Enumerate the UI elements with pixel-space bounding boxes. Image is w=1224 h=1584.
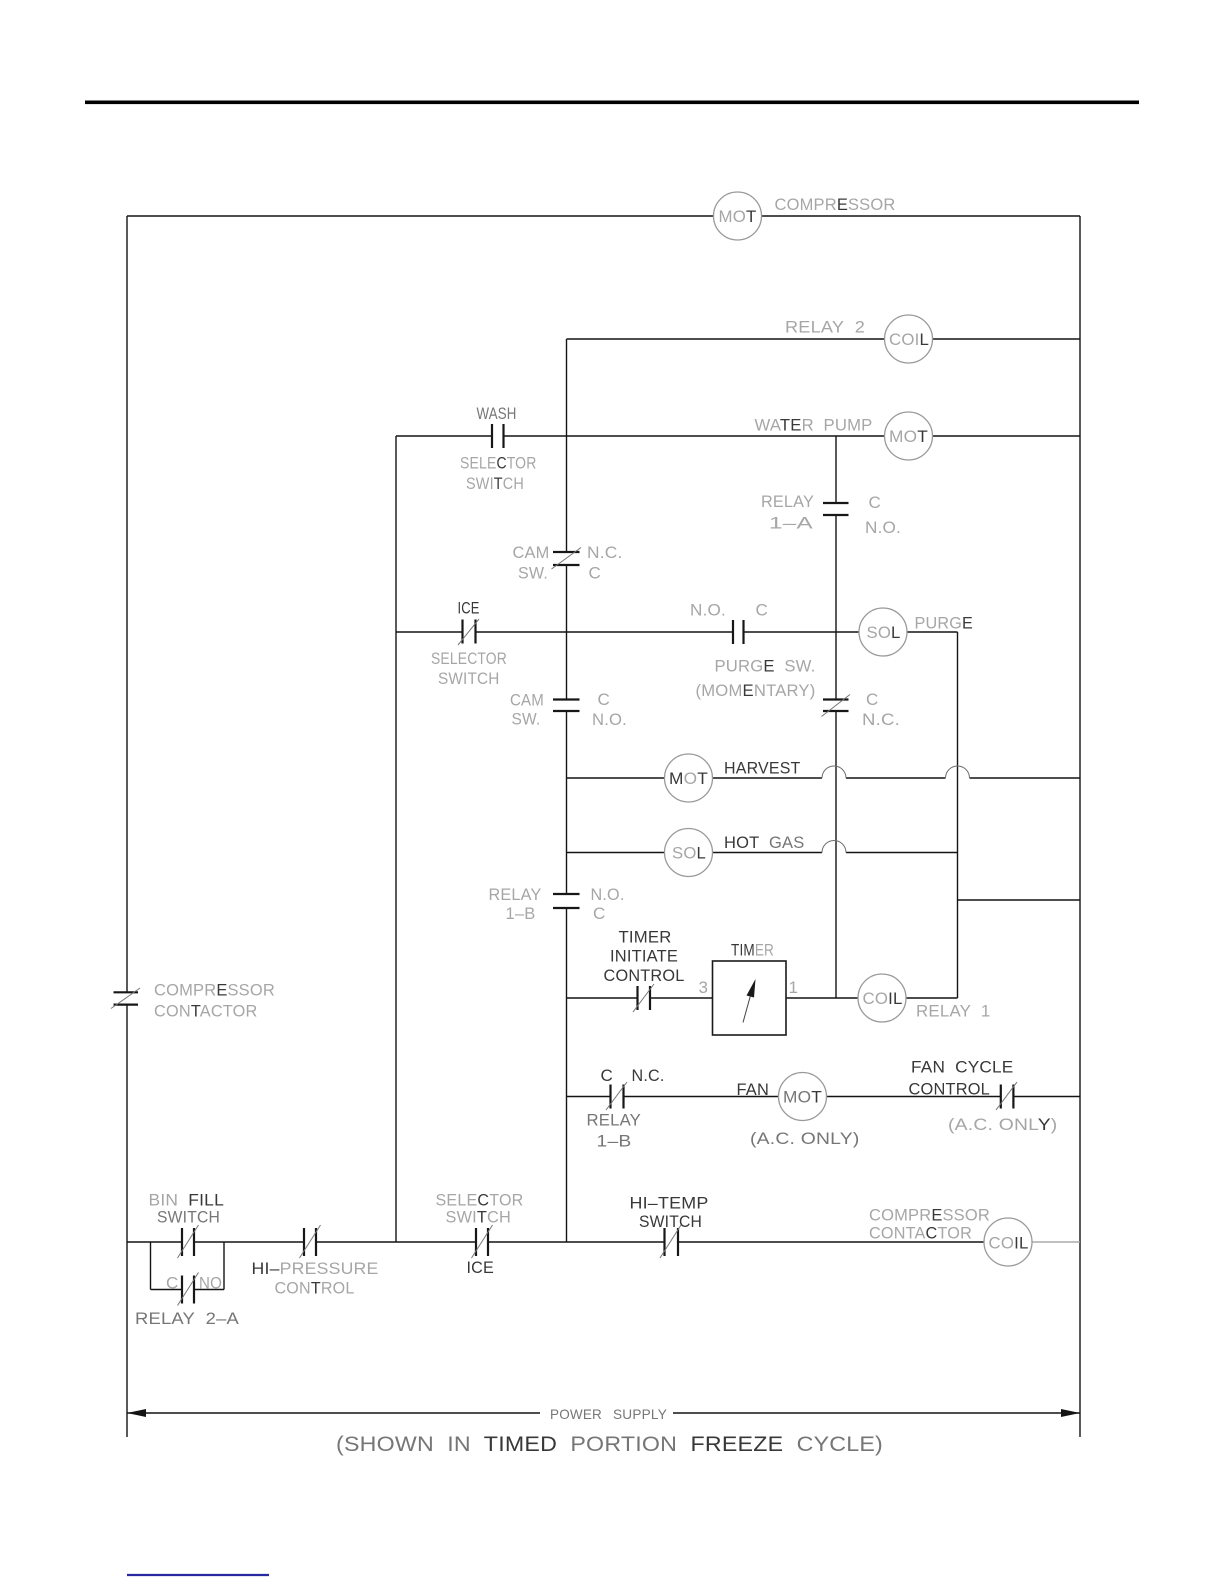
svg-text:N.C.: N.C. bbox=[862, 710, 900, 729]
svg-text:RELAY: RELAY bbox=[587, 1111, 642, 1130]
svg-text:RELAY 2: RELAY 2 bbox=[785, 318, 865, 337]
svg-text:N.O.: N.O. bbox=[690, 601, 726, 620]
svg-text:MOT: MOT bbox=[889, 427, 928, 446]
svg-text:SWITCH: SWITCH bbox=[466, 474, 524, 493]
svg-text:MOT: MOT bbox=[783, 1088, 822, 1107]
svg-text:1: 1 bbox=[789, 978, 799, 997]
svg-text:(A.C. ONLY): (A.C. ONLY) bbox=[750, 1129, 860, 1148]
svg-text:COMPRESSOR: COMPRESSOR bbox=[775, 195, 896, 214]
svg-text:SW.: SW. bbox=[512, 710, 541, 729]
svg-text:RELAY: RELAY bbox=[489, 885, 542, 904]
svg-text:C: C bbox=[598, 690, 610, 709]
svg-text:FAN: FAN bbox=[737, 1080, 770, 1099]
svg-text:(MOMENTARY): (MOMENTARY) bbox=[696, 681, 816, 700]
svg-text:SELECTOR: SELECTOR bbox=[431, 649, 507, 668]
svg-text:COIL: COIL bbox=[989, 1234, 1029, 1253]
svg-text:SOL: SOL bbox=[867, 623, 901, 642]
svg-text:SWITCH: SWITCH bbox=[639, 1212, 702, 1231]
svg-text:COIL: COIL bbox=[889, 330, 929, 349]
svg-text:RELAY 1: RELAY 1 bbox=[916, 1002, 991, 1021]
svg-text:HOT GAS: HOT GAS bbox=[724, 833, 805, 852]
svg-text:1–A: 1–A bbox=[769, 514, 814, 533]
svg-text:POWER: POWER bbox=[550, 1406, 602, 1422]
svg-text:(A.C. ONLY): (A.C. ONLY) bbox=[948, 1115, 1058, 1134]
svg-text:RELAY: RELAY bbox=[761, 492, 814, 511]
svg-text:PURGE: PURGE bbox=[915, 614, 974, 633]
svg-text:WATER PUMP: WATER PUMP bbox=[755, 416, 873, 435]
svg-text:N.C.: N.C. bbox=[632, 1066, 665, 1085]
svg-text:SELECTOR: SELECTOR bbox=[460, 454, 537, 473]
svg-text:WASH: WASH bbox=[477, 404, 517, 423]
svg-text:TIMER: TIMER bbox=[619, 928, 672, 947]
svg-text:CONTROL: CONTROL bbox=[275, 1279, 355, 1298]
svg-text:SUPPLY: SUPPLY bbox=[613, 1406, 667, 1422]
svg-text:1–B: 1–B bbox=[597, 1132, 632, 1151]
svg-text:(SHOWN IN TIMED PORTION FR: (SHOWN IN TIMED PORTION FREEZE CYCLE) bbox=[336, 1433, 883, 1456]
svg-text:C: C bbox=[593, 904, 605, 923]
svg-text:N.C.: N.C. bbox=[587, 543, 623, 562]
svg-text:PURGE SW.: PURGE SW. bbox=[715, 657, 816, 676]
svg-text:SWITCH: SWITCH bbox=[157, 1208, 220, 1227]
svg-text:HARVEST: HARVEST bbox=[724, 759, 801, 778]
svg-text:SWITCH: SWITCH bbox=[446, 1208, 512, 1227]
svg-text:MOT: MOT bbox=[719, 207, 757, 226]
svg-text:COMPRESSOR: COMPRESSOR bbox=[869, 1206, 990, 1225]
svg-text:FAN CYCLE: FAN CYCLE bbox=[911, 1058, 1014, 1077]
svg-text:SOL: SOL bbox=[672, 844, 706, 863]
svg-text:CONTROL: CONTROL bbox=[909, 1080, 991, 1099]
svg-text:ICE: ICE bbox=[467, 1258, 495, 1277]
svg-text:C: C bbox=[756, 601, 768, 620]
svg-text:N.O.: N.O. bbox=[592, 710, 627, 729]
svg-text:C: C bbox=[589, 564, 601, 583]
svg-text:CONTACTOR: CONTACTOR bbox=[154, 1002, 258, 1021]
svg-text:CONTROL: CONTROL bbox=[604, 966, 685, 985]
svg-text:COIL: COIL bbox=[863, 989, 903, 1008]
svg-text:INITIATE: INITIATE bbox=[610, 947, 678, 966]
svg-text:N.O.: N.O. bbox=[865, 518, 901, 537]
svg-text:CONTACTOR: CONTACTOR bbox=[869, 1224, 972, 1243]
svg-text:HI–TEMP: HI–TEMP bbox=[630, 1194, 709, 1213]
svg-text:C: C bbox=[601, 1066, 613, 1085]
svg-text:ICE: ICE bbox=[458, 599, 480, 618]
svg-text:SW.: SW. bbox=[518, 564, 548, 583]
svg-text:CAM: CAM bbox=[510, 691, 544, 710]
svg-text:C: C bbox=[869, 493, 881, 512]
svg-text:NO: NO bbox=[199, 1274, 222, 1293]
svg-text:CAM: CAM bbox=[513, 543, 550, 562]
svg-text:C: C bbox=[166, 1274, 178, 1293]
svg-text:COMPRESSOR: COMPRESSOR bbox=[154, 981, 275, 1000]
svg-text:SWITCH: SWITCH bbox=[438, 669, 500, 688]
svg-text:TIMER: TIMER bbox=[731, 941, 774, 960]
svg-text:3: 3 bbox=[699, 978, 709, 997]
svg-text:HI–PRESSURE: HI–PRESSURE bbox=[252, 1259, 379, 1278]
svg-text:C: C bbox=[866, 690, 878, 709]
svg-text:1–B: 1–B bbox=[506, 904, 536, 923]
svg-text:N.O.: N.O. bbox=[591, 885, 625, 904]
svg-text:MOT: MOT bbox=[669, 769, 708, 788]
svg-text:RELAY 2–A: RELAY 2–A bbox=[135, 1309, 239, 1328]
